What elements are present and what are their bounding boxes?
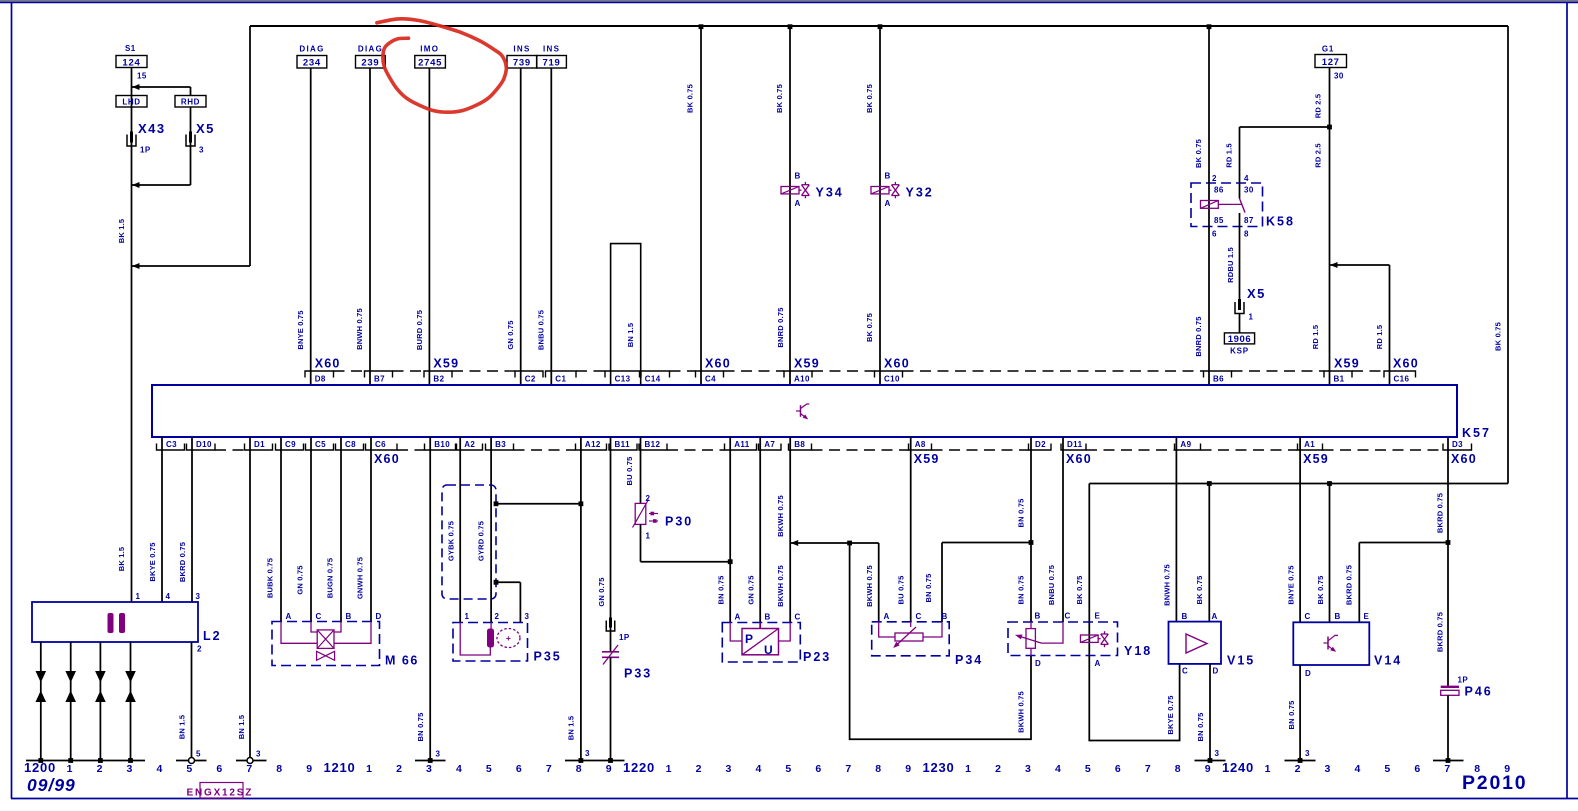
connector pin C3 <box>157 444 185 451</box>
wire B8 branch right <box>790 542 879 544</box>
svg-text:C: C <box>1182 667 1188 676</box>
wire pin30 <box>1239 127 1241 199</box>
svg-text:BN 0.75: BN 0.75 <box>717 576 726 605</box>
wire D3 BKRD <box>1447 437 1449 687</box>
temperature sensor P30 <box>635 503 646 524</box>
EGR valve Y18 <box>1008 622 1118 656</box>
svg-text:M 66: M 66 <box>385 654 419 668</box>
svg-text:S1: S1 <box>125 44 136 53</box>
svg-text:DIAG: DIAG <box>358 45 383 54</box>
svg-text:BN 0.75: BN 0.75 <box>1017 576 1026 605</box>
svg-text:RD 2.5: RD 2.5 <box>1314 94 1323 119</box>
svg-text:B11: B11 <box>615 440 631 449</box>
svg-text:6: 6 <box>815 763 822 775</box>
svg-text:1: 1 <box>1265 763 1272 775</box>
svg-text:1: 1 <box>666 763 673 775</box>
connector pin C4 <box>696 371 724 378</box>
svg-text:1240: 1240 <box>1222 760 1254 775</box>
ground B10 <box>415 760 446 762</box>
connector pin B7 <box>365 371 393 378</box>
svg-text:B3: B3 <box>495 440 506 449</box>
wire Y18 E riser <box>1088 484 1090 656</box>
K58 coil <box>1208 26 1210 385</box>
svg-text:7: 7 <box>246 763 253 775</box>
svg-text:4: 4 <box>456 763 463 775</box>
svg-text:D: D <box>376 612 382 621</box>
svg-text:7: 7 <box>1444 763 1451 775</box>
svg-text:2: 2 <box>995 763 1002 775</box>
svg-text:2: 2 <box>97 763 104 775</box>
svg-text:A: A <box>795 199 801 208</box>
svg-text:3: 3 <box>436 750 441 759</box>
svg-text:4: 4 <box>156 763 163 775</box>
wire to KSP <box>1239 314 1241 333</box>
svg-text:D11: D11 <box>1067 440 1083 449</box>
svg-text:KSP: KSP <box>1230 347 1249 356</box>
svg-text:1: 1 <box>136 592 141 601</box>
wire D2 BN <box>1030 437 1032 622</box>
wire C9 BUBK 0.75 to M66 <box>280 437 282 622</box>
svg-text:85: 85 <box>1214 216 1224 225</box>
svg-text:X59: X59 <box>433 357 459 371</box>
svg-text:C: C <box>1065 612 1071 621</box>
svg-text:INS: INS <box>543 45 560 54</box>
svg-text:X60: X60 <box>315 357 341 371</box>
svg-text:BK 0.75: BK 0.75 <box>1195 576 1204 605</box>
svg-text:BN 0.75: BN 0.75 <box>1287 701 1296 730</box>
svg-text:9: 9 <box>1205 763 1212 775</box>
svg-text:7: 7 <box>546 763 553 775</box>
svg-text:6: 6 <box>216 763 223 775</box>
svg-text:BUBK 0.75: BUBK 0.75 <box>266 558 275 598</box>
svg-text:BKWH 0.75: BKWH 0.75 <box>865 565 874 607</box>
svg-text:C: C <box>916 612 922 621</box>
connector pin A12 <box>576 444 607 451</box>
svg-text:A12: A12 <box>585 440 601 449</box>
svg-text:RD 1.5: RD 1.5 <box>1375 325 1384 350</box>
svg-text:X43: X43 <box>138 121 166 136</box>
wire A7 GN <box>759 437 761 629</box>
wire pin87 <box>1239 213 1241 302</box>
capacitor P46 <box>1441 686 1459 688</box>
wire RHD down <box>190 107 192 185</box>
svg-text:D8: D8 <box>315 375 326 384</box>
svg-text:C16: C16 <box>1394 375 1410 384</box>
svg-text:9: 9 <box>306 763 313 775</box>
spark plug lead at x100.4 <box>99 642 101 761</box>
svg-text:C14: C14 <box>645 375 661 384</box>
svg-text:BU 0.75: BU 0.75 <box>625 457 634 486</box>
svg-text:BN 0.75: BN 0.75 <box>924 574 933 603</box>
reference box 1906 KSP <box>1224 333 1254 344</box>
svg-text:Y34: Y34 <box>816 186 844 200</box>
svg-text:BK 0.75: BK 0.75 <box>1194 139 1203 168</box>
shield tap to A12 <box>496 503 581 505</box>
connector pin D11 <box>1061 444 1086 451</box>
svg-text:G1: G1 <box>1322 45 1334 54</box>
svg-text:X60: X60 <box>374 452 400 466</box>
control unit K57 box <box>152 385 1457 437</box>
svg-text:BKWH 0.75: BKWH 0.75 <box>776 495 785 537</box>
svg-text:A: A <box>1095 659 1101 668</box>
svg-text:B10: B10 <box>434 440 450 449</box>
svg-text:A1: A1 <box>1304 440 1315 449</box>
transistor module V14 <box>1293 622 1369 665</box>
svg-text:5: 5 <box>486 763 493 775</box>
svg-text:GN 0.75: GN 0.75 <box>597 577 606 606</box>
wire D1 to ground <box>249 437 251 761</box>
stepper motor M66 <box>272 622 380 666</box>
svg-text:BK 0.75: BK 0.75 <box>865 84 874 113</box>
connector pin C13 <box>605 371 640 378</box>
svg-text:A7: A7 <box>764 440 775 449</box>
svg-text:4: 4 <box>1055 763 1062 775</box>
svg-text:8: 8 <box>875 763 882 775</box>
capacitor P33 <box>602 651 619 653</box>
svg-text:U: U <box>764 643 773 657</box>
svg-text:A: A <box>286 612 292 621</box>
svg-text:2: 2 <box>197 645 202 654</box>
page frame <box>0 0 1578 2</box>
connector 1P on B11 <box>606 621 615 632</box>
wire jumper C13-C14 BN1.5 <box>611 244 641 385</box>
connector pin A7 <box>759 444 782 451</box>
connector pin B6 <box>1204 371 1232 378</box>
svg-text:B1: B1 <box>1334 375 1345 384</box>
svg-text:D: D <box>1305 669 1311 678</box>
svg-text:C: C <box>795 613 801 622</box>
svg-text:3: 3 <box>525 612 530 621</box>
svg-text:3: 3 <box>1305 749 1310 758</box>
svg-text:86: 86 <box>1214 186 1224 195</box>
svg-text:BNYE 0.75: BNYE 0.75 <box>1287 565 1296 604</box>
svg-text:B7: B7 <box>374 375 385 384</box>
svg-text:RD 1.5: RD 1.5 <box>1225 143 1234 168</box>
svg-text:A8: A8 <box>915 440 926 449</box>
svg-text:A: A <box>735 613 741 622</box>
svg-text:5: 5 <box>1384 763 1391 775</box>
K58 coil lead <box>1218 203 1241 205</box>
svg-text:BNWH 0.75: BNWH 0.75 <box>355 308 364 350</box>
connector pin D3 <box>1443 444 1472 451</box>
svg-text:B8: B8 <box>794 440 805 449</box>
svg-text:RHD: RHD <box>181 98 200 107</box>
svg-text:BKRD 0.75: BKRD 0.75 <box>1345 565 1354 605</box>
shield tap to P35 pin3 <box>496 581 520 583</box>
connector pin A1 <box>1298 444 1323 451</box>
connector pin C10 <box>875 371 903 378</box>
wire V14 D ground <box>1299 665 1301 761</box>
svg-text:1220: 1220 <box>623 760 655 775</box>
wire <box>520 68 522 385</box>
svg-text:1P: 1P <box>619 633 630 642</box>
wire G1 down <box>1329 68 1331 386</box>
svg-text:1: 1 <box>1249 313 1254 322</box>
svg-text:124: 124 <box>122 58 140 69</box>
connector pin D2 <box>1029 444 1052 451</box>
connector pin C1 <box>546 371 577 378</box>
svg-text:4: 4 <box>1354 763 1361 775</box>
svg-text:239: 239 <box>361 58 379 69</box>
wire V15 A BK <box>1208 484 1210 622</box>
wire A9 BNWH <box>1175 437 1177 622</box>
svg-text:B: B <box>765 613 771 622</box>
svg-text:E: E <box>1095 612 1101 621</box>
svg-text:2: 2 <box>396 763 403 775</box>
svg-text:6: 6 <box>516 763 523 775</box>
svg-text:B: B <box>1335 612 1341 621</box>
svg-text:1P: 1P <box>140 146 151 155</box>
svg-text:C: C <box>316 612 322 621</box>
wire D10 to L2 pin3 <box>191 437 193 602</box>
svg-text:D10: D10 <box>196 440 212 449</box>
svg-text:BN 1.5: BN 1.5 <box>567 716 576 741</box>
connector pin B11 <box>609 444 637 451</box>
svg-text:BK 0.75: BK 0.75 <box>1494 322 1503 351</box>
wire V14 B BK <box>1329 484 1331 623</box>
svg-text:3: 3 <box>196 592 201 601</box>
svg-text:C10: C10 <box>884 375 900 384</box>
wire <box>310 68 312 385</box>
connector pin A8 <box>909 444 932 451</box>
svg-text:V15: V15 <box>1227 654 1255 668</box>
svg-text:X5: X5 <box>1247 286 1266 301</box>
svg-text:B6: B6 <box>1213 375 1224 384</box>
svg-text:A11: A11 <box>734 440 750 449</box>
svg-text:BKRD 0.75: BKRD 0.75 <box>1436 493 1445 533</box>
svg-text:P23: P23 <box>803 650 831 664</box>
ground L2 pin2 <box>176 760 207 762</box>
connector pin C6 <box>366 444 398 451</box>
svg-text:9: 9 <box>905 763 912 775</box>
wire A1 BNYE <box>1299 437 1301 622</box>
svg-text:C1: C1 <box>555 375 566 384</box>
svg-text:BKRD 0.75: BKRD 0.75 <box>1436 612 1445 652</box>
shared ground A12/P33 <box>565 760 625 762</box>
svg-text:A10: A10 <box>794 375 810 384</box>
svg-text:127: 127 <box>1322 57 1340 68</box>
red hand-drawn circle around IMO 2745 <box>377 19 506 112</box>
svg-text:A9: A9 <box>1180 440 1191 449</box>
svg-text:C4: C4 <box>705 375 716 384</box>
svg-text:BNBU 0.75: BNBU 0.75 <box>1047 565 1056 605</box>
junction dot ground x40.8 <box>38 758 43 763</box>
svg-text:P35: P35 <box>534 650 562 664</box>
connector pin C2 <box>515 371 543 378</box>
svg-text:BN 0.75: BN 0.75 <box>1017 499 1026 528</box>
svg-text:4: 4 <box>166 592 171 601</box>
junction dot ground x70.7 <box>68 758 73 763</box>
svg-text:RD 2.5: RD 2.5 <box>1314 143 1323 168</box>
svg-text:3: 3 <box>256 750 261 759</box>
svg-text:7: 7 <box>1145 763 1152 775</box>
svg-text:BU 0.75: BU 0.75 <box>897 576 906 605</box>
svg-text:6: 6 <box>1212 230 1217 239</box>
connector pin C5 <box>306 444 334 451</box>
valve Y32 <box>879 26 881 385</box>
svg-text:234: 234 <box>303 58 321 69</box>
wire <box>550 68 552 385</box>
svg-text:BNRD 0.75: BNRD 0.75 <box>1194 316 1203 356</box>
svg-text:B: B <box>942 612 948 621</box>
wire L2 pin2 to ground <box>191 642 193 761</box>
svg-text:A2: A2 <box>464 440 475 449</box>
wire branch to RHD <box>132 86 191 88</box>
svg-text:BK 1.5: BK 1.5 <box>117 219 126 244</box>
wire C8 BUGN 0.75 to M66 <box>340 437 342 622</box>
connector pin B3 <box>486 444 514 451</box>
svg-text:P34: P34 <box>955 653 983 667</box>
svg-text:D3: D3 <box>1452 440 1463 449</box>
wire P33 to ground <box>610 657 612 760</box>
svg-text:B: B <box>795 172 801 181</box>
svg-text:RD 1.5: RD 1.5 <box>1311 325 1320 350</box>
svg-text:GYBK 0.75: GYBK 0.75 <box>447 521 456 561</box>
svg-text:BN 1.5: BN 1.5 <box>237 715 246 740</box>
svg-text:A: A <box>1212 612 1218 621</box>
svg-text:6: 6 <box>1414 763 1421 775</box>
wire <box>428 68 430 385</box>
svg-text:2: 2 <box>1212 174 1217 183</box>
wire P34 B to D2 <box>941 543 943 623</box>
wire C3 to L2 pin4 <box>161 437 163 602</box>
svg-text:D2: D2 <box>1035 440 1046 449</box>
svg-text:BKYE 0.75: BKYE 0.75 <box>148 542 157 581</box>
wire B12 BU <box>640 437 642 503</box>
svg-text:5: 5 <box>1085 763 1092 775</box>
svg-text:1210: 1210 <box>323 760 355 775</box>
svg-text:8: 8 <box>1175 763 1182 775</box>
wire V15 D ground <box>1209 664 1211 761</box>
svg-text:BNRD 0.75: BNRD 0.75 <box>776 307 785 347</box>
transistor icon inside K57 <box>800 405 802 417</box>
relay K58 <box>1191 183 1263 227</box>
svg-text:K57: K57 <box>1462 426 1491 440</box>
connector pin D1 <box>245 444 273 451</box>
wire BK1.5 main left <box>131 68 133 602</box>
connector dashed line upper <box>334 370 365 372</box>
wire B10 to ground <box>429 437 431 761</box>
svg-text:5: 5 <box>785 763 792 775</box>
svg-text:8: 8 <box>576 763 583 775</box>
svg-text:X59: X59 <box>914 452 940 466</box>
svg-text:1906: 1906 <box>1228 334 1252 345</box>
svg-text:BKWH 0.75: BKWH 0.75 <box>776 565 785 607</box>
svg-text:5: 5 <box>186 763 193 775</box>
svg-text:X60: X60 <box>1451 452 1477 466</box>
wire Y18 A to V15 C <box>1089 656 1179 741</box>
svg-text:P2010: P2010 <box>1462 772 1527 794</box>
valve Y34 <box>789 26 791 385</box>
svg-text:7: 7 <box>845 763 852 775</box>
svg-text:3: 3 <box>199 146 204 155</box>
connector pin C9 <box>276 444 304 451</box>
connector pin B1 <box>1324 371 1352 378</box>
ground D1 <box>236 760 267 762</box>
svg-text:BN 0.75: BN 0.75 <box>1196 713 1205 742</box>
wire C4 drop <box>700 26 702 385</box>
connector pin D10 <box>187 444 216 451</box>
svg-text:3: 3 <box>1215 749 1220 758</box>
svg-text:1: 1 <box>67 763 74 775</box>
svg-text:BK 0.75: BK 0.75 <box>865 313 874 342</box>
junction dot ground x130.5 <box>128 758 133 763</box>
wire C5 GN 0.75 to M66 <box>310 437 312 622</box>
svg-text:BKRD 0.75: BKRD 0.75 <box>178 542 187 582</box>
wire B3 GYRD <box>490 437 492 623</box>
svg-text:X59: X59 <box>794 357 820 371</box>
svg-text:1P: 1P <box>1458 676 1469 685</box>
svg-text:E: E <box>1364 612 1370 621</box>
junction dot ground x100.4 <box>98 758 103 763</box>
svg-text:B: B <box>346 612 352 621</box>
svg-text:4: 4 <box>1244 174 1249 183</box>
wire A8 BU <box>910 437 912 622</box>
connector pin D8 <box>305 371 334 378</box>
K58 contact blade <box>1240 199 1246 213</box>
svg-text:739: 739 <box>513 58 531 69</box>
svg-text:3: 3 <box>127 763 134 775</box>
svg-text:GN 0.75: GN 0.75 <box>296 565 305 594</box>
svg-text:8: 8 <box>276 763 283 775</box>
svg-text:B12: B12 <box>645 440 661 449</box>
wire B11 GN <box>610 437 612 652</box>
svg-text:B: B <box>1182 612 1188 621</box>
svg-text:X5: X5 <box>196 121 215 136</box>
svg-text:X60: X60 <box>1066 452 1092 466</box>
svg-text:D1: D1 <box>254 440 265 449</box>
diode module V15 <box>1169 622 1222 664</box>
svg-text:X59: X59 <box>1303 452 1329 466</box>
svg-text:1: 1 <box>465 612 470 621</box>
connector pin A9 <box>1175 444 1201 451</box>
svg-text:X59: X59 <box>1334 357 1360 371</box>
wire B8 BKWH <box>789 437 791 623</box>
svg-text:P30: P30 <box>665 515 693 529</box>
svg-text:1: 1 <box>366 763 373 775</box>
svg-text:GN 0.75: GN 0.75 <box>506 320 515 349</box>
connector pin C8 <box>336 444 364 451</box>
connector pin B2 <box>424 371 452 378</box>
svg-text:Y18: Y18 <box>1124 644 1152 658</box>
connector pin B8 <box>789 444 812 451</box>
svg-text:P33: P33 <box>624 667 652 681</box>
svg-text:D: D <box>1035 659 1041 668</box>
connector pin C16 <box>1384 371 1416 378</box>
svg-text:C13: C13 <box>615 375 631 384</box>
spark plug lead at x40.8 <box>40 642 42 761</box>
svg-text:X60: X60 <box>884 357 910 371</box>
svg-text:3: 3 <box>426 763 433 775</box>
svg-text:X60: X60 <box>1393 357 1419 371</box>
wire A12 to ground <box>580 437 582 761</box>
svg-text:15: 15 <box>137 72 147 81</box>
svg-text:5: 5 <box>196 750 201 759</box>
svg-text:V14: V14 <box>1374 654 1402 668</box>
wire V14 E BKRD <box>1358 543 1360 623</box>
svg-text:3: 3 <box>1325 763 1332 775</box>
connector pin A11 <box>725 444 757 451</box>
svg-text:RDBU 1.5: RDBU 1.5 <box>1226 247 1235 283</box>
wire A2 GYBK <box>459 437 461 623</box>
svg-text:BK 0.75: BK 0.75 <box>1075 576 1084 605</box>
svg-text:B: B <box>1035 612 1041 621</box>
wire branch to C16 <box>1330 264 1390 266</box>
svg-text:1: 1 <box>646 532 651 541</box>
wire D11 BNBU <box>1062 437 1064 622</box>
svg-text:P: P <box>745 632 753 646</box>
svg-text:B2: B2 <box>433 375 444 384</box>
